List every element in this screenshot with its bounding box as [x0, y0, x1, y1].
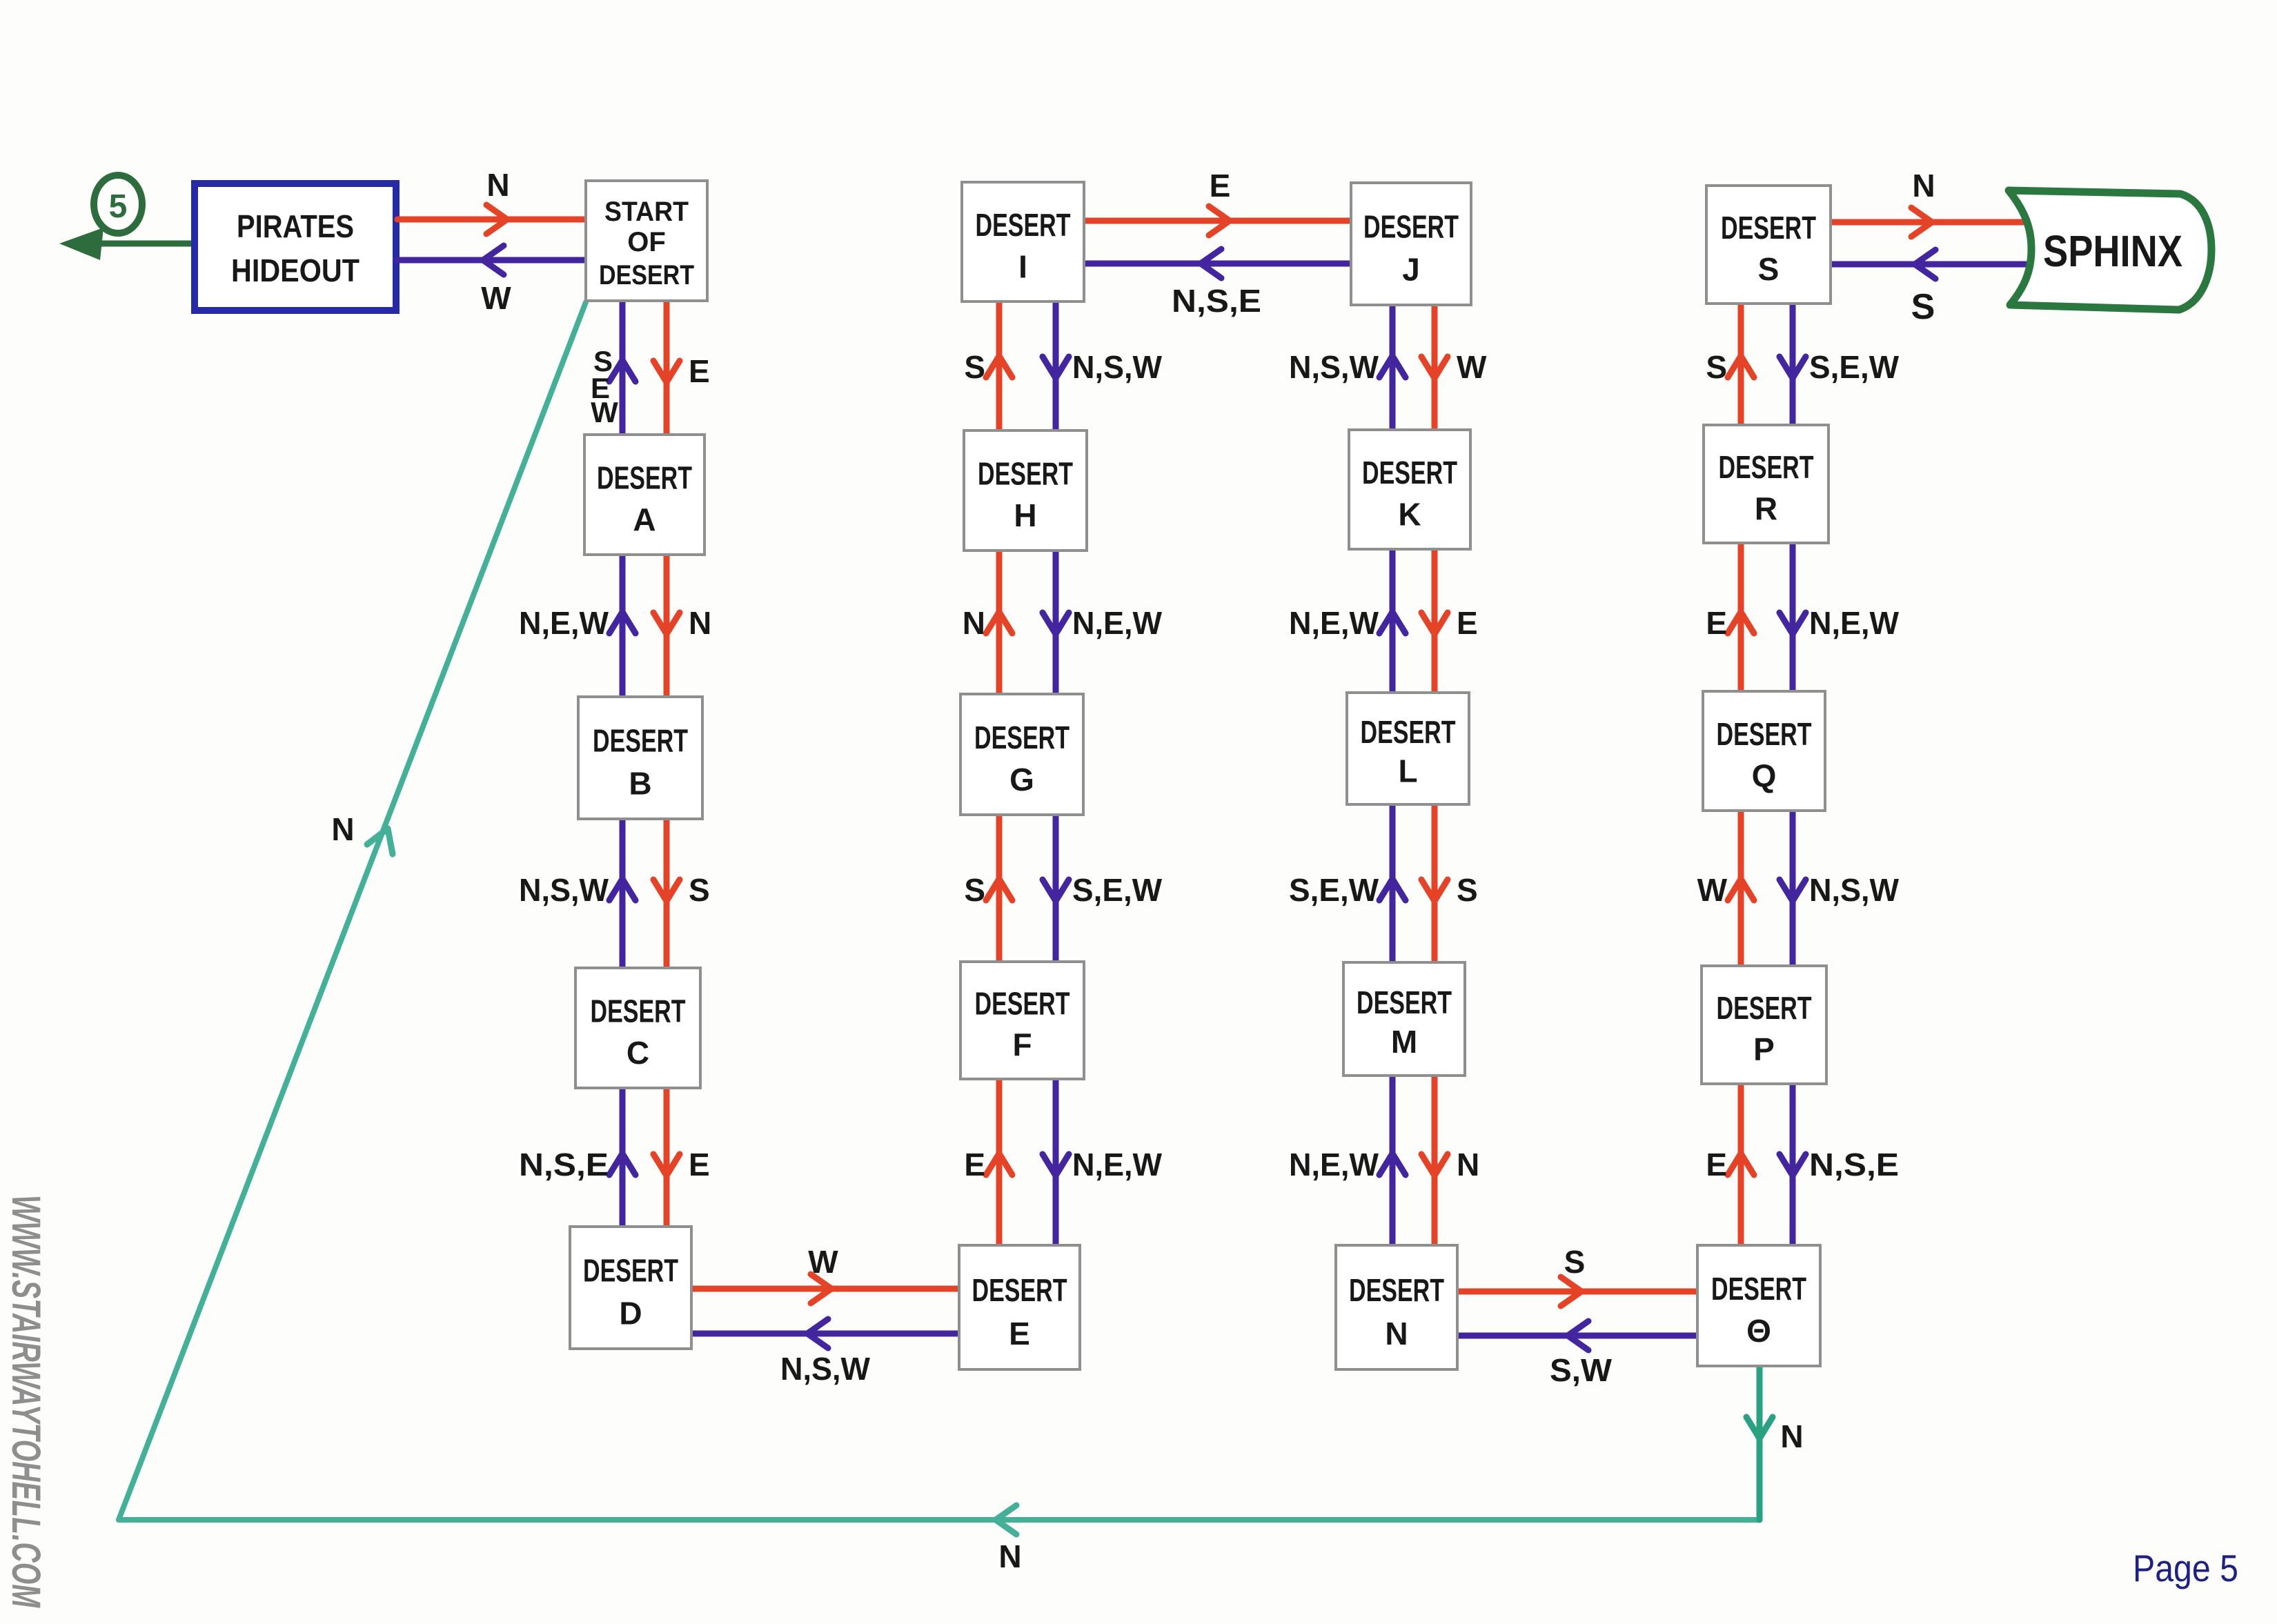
arrowhead up — [1728, 1153, 1754, 1175]
svg-text:W: W — [1457, 349, 1487, 385]
arrowhead up — [986, 612, 1012, 633]
wire red down from DESERT B to DESERT C — [664, 819, 670, 968]
room box DESERT K — [1349, 430, 1470, 549]
svg-text:W: W — [481, 280, 511, 316]
svg-text:DESERT: DESERT — [1349, 1272, 1444, 1308]
arrowhead purple west — [483, 246, 504, 275]
svg-text:DESERT: DESERT — [1717, 716, 1812, 752]
arrowhead down — [1421, 613, 1448, 634]
arrowhead up — [1379, 1153, 1406, 1175]
svg-text:N: N — [1780, 1418, 1803, 1454]
arrowhead purple west — [807, 1319, 828, 1348]
svg-text:DESERT: DESERT — [1721, 210, 1816, 246]
svg-text:H: H — [1014, 497, 1036, 533]
arrowhead purple west — [1201, 249, 1221, 278]
svg-text:S,E,W: S,E,W — [1809, 349, 1900, 385]
arrowhead red east — [1209, 206, 1230, 235]
room box DESERT L — [1347, 693, 1469, 804]
room box DESERT S — [1706, 186, 1831, 304]
arrowhead down — [1421, 357, 1448, 378]
svg-text:N: N — [1457, 1147, 1479, 1182]
svg-text:W: W — [808, 1244, 838, 1280]
room box DESERT P — [1702, 966, 1826, 1084]
arrowhead up — [1379, 879, 1406, 900]
svg-text:DESERT: DESERT — [1719, 449, 1814, 485]
svg-text:DESERT: DESERT — [591, 993, 686, 1029]
svg-text:E: E — [964, 1147, 985, 1182]
arrowhead up — [609, 360, 635, 382]
wire red down from DESERT L to DESERT M — [1432, 804, 1438, 962]
svg-text:N,S,W: N,S,W — [1289, 349, 1379, 385]
svg-text:WWW.STAIRWAYTOHELL.COM: WWW.STAIRWAYTOHELL.COM — [3, 1195, 48, 1608]
wire purple down from DESERT H to DESERT G — [1053, 551, 1059, 694]
arrowhead down — [653, 361, 680, 382]
arrowhead up — [1379, 612, 1406, 633]
arrowhead down — [1043, 1154, 1069, 1176]
wire purple down from DESERT G to DESERT F — [1053, 815, 1059, 962]
svg-text:DESERT: DESERT — [597, 459, 692, 495]
svg-text:N,E,W: N,E,W — [1289, 1147, 1379, 1182]
svg-text:N,S,W: N,S,W — [1809, 872, 1900, 908]
room box DESERT C — [575, 968, 700, 1088]
svg-text:Page 5: Page 5 — [2133, 1547, 2238, 1590]
wire red down from DESERT K to DESERT L — [1432, 549, 1438, 693]
wire red up from DESERT P to DESERT Q — [1738, 811, 1744, 966]
svg-text:DESERT: DESERT — [1363, 209, 1459, 245]
arrowhead up — [1379, 356, 1406, 377]
arrowhead down — [1780, 1154, 1806, 1176]
arrow west out of PIRATES HIDEOUT — [83, 241, 195, 247]
svg-text:E: E — [1706, 605, 1727, 641]
svg-text:N,E,W: N,E,W — [519, 605, 609, 641]
wire red up from DESERT F to DESERT G — [996, 815, 1003, 962]
arrowhead purple west — [1568, 1321, 1588, 1350]
arrowhead purple west — [1915, 250, 1935, 279]
svg-text:L: L — [1398, 753, 1417, 789]
svg-text:DESERT: DESERT — [1357, 984, 1452, 1020]
svg-text:N,S,W: N,S,W — [780, 1351, 871, 1387]
svg-text:W: W — [1697, 872, 1728, 908]
wire red N from PIRATES HIDEOUT to START OF DESERT — [397, 217, 586, 223]
room box DESERT A — [584, 435, 704, 555]
arrowhead up — [986, 879, 1012, 900]
room box DESERT D — [570, 1227, 691, 1349]
arrowhead N below DESERT O (south) — [1746, 1417, 1773, 1438]
wire purple up from DESERT D to DESERT C — [620, 1088, 626, 1228]
svg-text:PIRATES: PIRATES — [237, 208, 354, 244]
arrowhead N on bottom teal route (west) — [996, 1505, 1016, 1534]
svg-text:B: B — [629, 766, 651, 802]
wire purple up from DESERT K to DESERT J — [1390, 305, 1396, 430]
svg-text:Θ: Θ — [1746, 1313, 1771, 1349]
arrowhead up — [609, 612, 635, 633]
wire red up from DESERT H to DESERT I — [996, 301, 1003, 430]
wire red down from DESERT A to DESERT B — [664, 555, 670, 697]
svg-text:5: 5 — [109, 188, 128, 225]
svg-text:F: F — [1012, 1027, 1032, 1062]
svg-text:Q: Q — [1752, 757, 1777, 793]
arrowhead red east — [811, 1274, 831, 1303]
wire purple up from DESERT B to DESERT A — [620, 555, 626, 697]
room box START OF DESERT — [586, 181, 707, 301]
svg-text:DESERT: DESERT — [976, 207, 1071, 243]
wire purple up from DESERT A to START OF DESERT — [620, 301, 626, 435]
arrowhead red east — [1561, 1277, 1581, 1306]
svg-text:N,S,W: N,S,W — [1072, 349, 1163, 385]
wire red up from DESERT O to DESERT P — [1738, 1084, 1744, 1245]
wire purple down from DESERT I to DESERT H — [1053, 301, 1059, 430]
svg-text:N,E,W: N,E,W — [1072, 1147, 1163, 1182]
arrowhead up — [609, 879, 635, 900]
wire red E from DESERT I to DESERT J — [1084, 218, 1351, 224]
arrowhead up — [986, 356, 1012, 377]
svg-text:DESERT: DESERT — [972, 1272, 1067, 1308]
svg-text:DESERT: DESERT — [599, 260, 694, 290]
wire red up from DESERT R to DESERT S — [1738, 304, 1744, 425]
svg-text:HIDEOUT: HIDEOUT — [231, 252, 359, 288]
svg-text:SPHINX: SPHINX — [2043, 226, 2182, 276]
wire teal horizontal route along bottom — [119, 1517, 1759, 1523]
room box DESERT I — [962, 182, 1084, 301]
svg-text:N: N — [1912, 168, 1935, 204]
arrowhead N on teal diagonal — [367, 829, 393, 854]
svg-text:N: N — [998, 1538, 1021, 1574]
room box DESERT F — [960, 962, 1084, 1079]
wire red down from DESERT C to DESERT D — [664, 1088, 670, 1228]
svg-text:START: START — [604, 197, 689, 227]
svg-text:E: E — [689, 1147, 710, 1182]
svg-text:E: E — [1210, 168, 1231, 204]
room box DESERT B — [578, 697, 702, 819]
room box DESERT R — [1704, 425, 1828, 543]
wire purple up from DESERT M to DESERT L — [1390, 804, 1396, 962]
svg-text:D: D — [619, 1296, 642, 1331]
svg-text:K: K — [1398, 496, 1421, 532]
room box PIRATES HIDEOUT — [195, 184, 396, 310]
svg-text:N,E,W: N,E,W — [1072, 605, 1163, 641]
arrowhead down — [1043, 357, 1069, 378]
svg-text:DESERT: DESERT — [593, 723, 688, 759]
svg-text:DESERT: DESERT — [1361, 714, 1456, 750]
arrowhead down — [1780, 357, 1806, 378]
svg-text:S: S — [1706, 349, 1727, 385]
svg-text:E: E — [1457, 605, 1478, 641]
arrowhead up — [1728, 356, 1754, 377]
svg-text:N,S,E: N,S,E — [1809, 1147, 1899, 1182]
room box DESERT Q — [1703, 691, 1825, 811]
arrowhead up — [1728, 612, 1754, 633]
wire red S from DESERT N to DESERT O — [1457, 1289, 1697, 1295]
svg-text:N,S,E: N,S,E — [1172, 283, 1261, 319]
svg-text:N: N — [1385, 1316, 1408, 1351]
arrowhead down — [1780, 613, 1806, 634]
wire purple up from DESERT L to DESERT K — [1390, 549, 1396, 693]
wire purple N,S,E from DESERT J to DESERT I — [1084, 261, 1351, 267]
room box DESERT O — [1697, 1245, 1820, 1366]
svg-text:DESERT: DESERT — [975, 986, 1070, 1022]
svg-text:S,E,W: S,E,W — [1289, 872, 1379, 908]
svg-text:S: S — [964, 349, 985, 385]
room box DESERT N — [1336, 1245, 1457, 1369]
wire green vertical from DESERT O to bottom route — [1757, 1366, 1763, 1520]
connector page 5 circle marker — [94, 175, 142, 233]
svg-text:N: N — [689, 605, 711, 641]
svg-text:M: M — [1391, 1024, 1417, 1060]
svg-text:E: E — [1009, 1316, 1030, 1351]
arrowhead down — [1780, 880, 1806, 901]
svg-text:A: A — [633, 502, 655, 537]
wire purple down from DESERT P to DESERT O — [1790, 1084, 1796, 1245]
svg-text:P: P — [1753, 1031, 1775, 1067]
wire purple down from DESERT S to DESERT R — [1790, 304, 1796, 425]
wire purple S,W from DESERT O to DESERT N — [1457, 1333, 1697, 1339]
wire red down from START OF DESERT to DESERT A — [664, 301, 670, 435]
wire red up from DESERT Q to DESERT R — [1738, 543, 1744, 691]
svg-text:OF: OF — [627, 227, 666, 257]
wire red N from DESERT S to SPHINX — [1831, 219, 2025, 226]
arrowhead up — [609, 1153, 635, 1175]
svg-text:W: W — [591, 396, 618, 428]
wire purple down from DESERT Q to DESERT P — [1790, 811, 1796, 966]
svg-text:S: S — [1758, 251, 1780, 287]
svg-text:E: E — [1706, 1147, 1727, 1182]
arrowhead down — [653, 613, 680, 634]
svg-text:DESERT: DESERT — [978, 455, 1073, 491]
svg-text:N: N — [486, 167, 509, 203]
arrowhead down — [1421, 1154, 1448, 1176]
svg-text:I: I — [1018, 248, 1027, 284]
wire red up from DESERT E to DESERT F — [996, 1079, 1003, 1245]
wire purple S from SPHINX to DESERT S — [1831, 261, 2027, 268]
wire red W from DESERT D to DESERT E — [691, 1286, 959, 1292]
svg-text:C: C — [627, 1035, 649, 1071]
svg-text:G: G — [1009, 762, 1034, 798]
wire purple N,S,W from DESERT E to DESERT D — [691, 1331, 959, 1337]
wire purple down from DESERT F to DESERT E — [1053, 1079, 1059, 1245]
svg-text:DESERT: DESERT — [1717, 990, 1812, 1026]
svg-text:DESERT: DESERT — [1362, 455, 1457, 491]
wire purple up from DESERT C to DESERT B — [620, 819, 626, 968]
arrowhead down — [1043, 880, 1069, 901]
room box DESERT M — [1343, 962, 1465, 1076]
svg-text:N,E,W: N,E,W — [1289, 605, 1379, 641]
room box DESERT G — [960, 694, 1083, 815]
room box DESERT J — [1351, 183, 1471, 305]
svg-text:DESERT: DESERT — [583, 1253, 678, 1289]
wire red down from DESERT J to DESERT K — [1432, 305, 1438, 430]
svg-text:S,E,W: S,E,W — [1072, 872, 1163, 908]
svg-text:S,W: S,W — [1550, 1352, 1613, 1388]
svg-text:S: S — [1457, 872, 1478, 908]
arrowhead down — [653, 880, 680, 901]
wire purple up from DESERT N to DESERT M — [1390, 1076, 1396, 1245]
arrowhead up — [986, 1153, 1012, 1175]
arrowhead red east — [1911, 208, 1932, 237]
svg-text:S: S — [1911, 287, 1935, 327]
wire red up from DESERT G to DESERT H — [996, 551, 1003, 694]
svg-text:S: S — [1564, 1244, 1586, 1280]
arrowhead down — [1043, 613, 1069, 634]
svg-text:N: N — [963, 605, 985, 641]
arrowhead red east — [486, 205, 507, 234]
svg-text:N,S,W: N,S,W — [519, 872, 609, 908]
wire purple down from DESERT R to DESERT Q — [1790, 543, 1796, 691]
wire teal diagonal route from START OF DESERT to bottom-left corner — [119, 302, 586, 1520]
svg-text:N: N — [331, 811, 354, 847]
location SPHINX — [2009, 190, 2211, 310]
arrowhead down — [1421, 880, 1448, 901]
arrowhead up — [1728, 879, 1754, 900]
svg-text:E: E — [689, 353, 710, 389]
room box DESERT H — [964, 430, 1087, 551]
wire red down from DESERT M to DESERT N — [1432, 1076, 1438, 1245]
svg-text:N,E,W: N,E,W — [1809, 605, 1900, 641]
svg-text:S: S — [689, 872, 710, 908]
svg-text:N,S,E: N,S,E — [519, 1147, 609, 1182]
svg-text:J: J — [1402, 252, 1420, 288]
svg-text:DESERT: DESERT — [1711, 1271, 1806, 1307]
arrowhead down — [653, 1154, 680, 1176]
svg-text:DESERT: DESERT — [974, 720, 1069, 755]
svg-text:S: S — [964, 872, 985, 908]
room box DESERT E — [959, 1245, 1080, 1369]
wire purple W from START OF DESERT to PIRATES HIDEOUT — [397, 257, 586, 264]
svg-text:R: R — [1755, 491, 1777, 526]
